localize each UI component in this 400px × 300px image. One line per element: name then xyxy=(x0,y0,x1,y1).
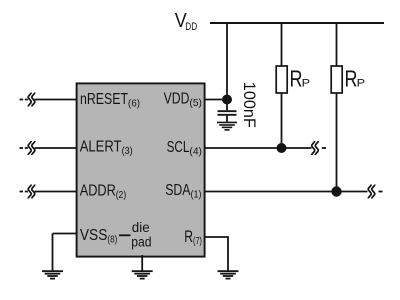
svg-text:(3): (3) xyxy=(122,146,133,157)
svg-text:(6): (6) xyxy=(128,99,140,110)
svg-text:100nF: 100nF xyxy=(240,82,259,128)
svg-text:DD: DD xyxy=(185,21,197,33)
svg-text:(4): (4) xyxy=(189,146,202,157)
svg-text:(1): (1) xyxy=(191,190,202,201)
svg-text:(7): (7) xyxy=(193,236,202,247)
svg-text:SCL: SCL xyxy=(167,139,190,156)
svg-text:SDA: SDA xyxy=(165,182,191,199)
svg-text:(8): (8) xyxy=(107,234,117,245)
svg-text:R: R xyxy=(184,227,193,246)
svg-text:(2): (2) xyxy=(116,190,127,201)
svg-text:VDD: VDD xyxy=(164,91,190,108)
svg-text:VSS: VSS xyxy=(80,227,108,244)
svg-text:ADDR: ADDR xyxy=(80,182,116,199)
svg-text:P: P xyxy=(357,78,365,90)
svg-text:die: die xyxy=(132,220,150,235)
svg-text:pad: pad xyxy=(131,235,151,250)
svg-text:R: R xyxy=(290,66,303,92)
svg-text:(5): (5) xyxy=(189,98,202,109)
svg-text:R: R xyxy=(345,66,358,92)
svg-text:P: P xyxy=(302,78,310,90)
svg-text:nRESET: nRESET xyxy=(80,91,128,108)
svg-text:ALERT: ALERT xyxy=(80,138,122,155)
